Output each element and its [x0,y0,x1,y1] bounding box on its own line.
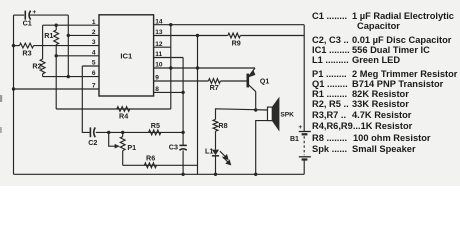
node left rail junction with pin 7 line [12,87,15,90]
svg-text:R1: R1 [44,31,53,40]
svg-text:7: 7 [92,83,96,90]
svg-text:3: 3 [92,39,96,46]
wire pin 4 line from IC to R1 bottom [56,55,99,57]
wire P1 top lead [122,132,124,136]
node P1 wiper branch junction on C2 line [107,131,110,134]
wire R2 bottom lead to pin 6 line corner [42,74,44,77]
resistor R8 zigzag vertical [213,119,218,131]
node V183 junction on pin 8 line [181,91,184,94]
svg-text:Q1: Q1 [260,78,269,85]
battery B1 first cell short plate [302,133,308,135]
svg-text:5: 5 [92,60,96,67]
LED L1 triangle pointing down [212,150,219,156]
speaker SPK cone trapezoid [272,98,279,130]
transistor Q1 collector lead slanting down [248,84,256,92]
wire R1 vertical upper lead from pin 1 line [55,25,57,30]
wire R6 line from P1 bottom to V197 [123,164,198,166]
speaker SPK body rectangle [268,107,273,121]
svg-text:SPK: SPK [280,112,294,119]
wire bottom rail from bottom-left corner to bottom-right corner [14,173,305,175]
wire pin 5 line from IC to corner at x=82.3 [82,65,99,67]
wire pin 5 vertical down to C2 line corner [82,66,89,132]
battery B1 second cell short plate [302,158,308,160]
svg-text:P1: P1 [127,143,136,152]
svg-text:R5: R5 [151,121,160,130]
wire speaker bottom lead left and down to bottom rail [256,121,268,175]
node V170 junction on pin 10 line [169,66,172,69]
wire R1 vertical lower lead down through pin 4 junction to R4 line corner [55,45,57,109]
svg-text:4: 4 [92,49,96,56]
node LED junction on bottom rail [214,173,217,176]
capacitor C3 top straight plate [179,144,186,146]
capacitor C3 bottom curved plate [179,149,186,150]
wire top rail right segment from C1 to vertical at x=68 [30,14,69,16]
svg-text:C3: C3 [169,142,178,151]
node V170 junction on pin 14 line [169,23,172,26]
wire pin 13 line right segment to right rail [240,35,304,37]
svg-text:R4: R4 [119,112,128,121]
svg-text:+: + [32,9,36,16]
wire pin 2 line from IC to V68 junction [68,34,99,36]
wire R8 bottom lead down to LED anode [215,131,217,149]
node junction V68 terminating on pin 6 line [67,75,70,78]
svg-text:B1: B1 [290,136,299,143]
LED L1 cathode bar [212,155,219,157]
wire battery top lead segment [303,130,305,132]
wire C3 bottom lead down to bottom rail [182,150,184,174]
capacitor C1 left straight plate [24,11,26,20]
svg-text:R6: R6 [146,153,155,162]
resistor R3 zigzag on pin 3 line [19,43,33,48]
wire pin 9 line right segment to Q1 base [220,80,246,82]
svg-text:1: 1 [92,19,96,26]
svg-text:C2: C2 [88,138,97,147]
transistor Q1 emitter lead slanting up to pin 10 line [248,68,255,78]
wire pin 3 line left segment to left rail [14,45,20,47]
transistor Q1 base bar [247,74,250,88]
node C3 junction on bottom rail [181,173,184,176]
wire pin 6 line from IC to R2 corner [43,76,99,78]
node left rail junction with pin 3 line [12,44,15,47]
wire top rail from top-left corner through C1 to V68 corner, left segment [14,14,25,16]
wire pin 14 line from IC to top-right corner [154,24,305,26]
potentiometer P1 zigzag vertical [120,137,125,151]
capacitor C1 right curved plate [29,11,31,20]
resistor R9 zigzag on pin 13 line [228,33,241,38]
wire Q1 collector vertical down to speaker line junction [255,92,257,110]
resistor R7 zigzag on pin 9 line [208,79,220,84]
svg-text:C1: C1 [23,19,32,28]
node speaker return junction on bottom rail [254,173,257,176]
wire V183 vertical from pin 11 down to C3 top plate [182,58,184,146]
wire V197 vertical from pin 13 line down to bottom rail [197,36,199,175]
node junction V68 on pin 2 line [67,34,70,37]
P1 wiper arrow shaft and riser to C2 line [109,132,117,146]
wire vertical from top rail down at x=68 to pin 6 line [67,15,69,77]
node Q1 collector junction on speaker top line [254,108,257,111]
resistor R2 zigzag vertical [40,59,45,74]
wire pin 7 line from IC to left rail [14,88,100,90]
battery B1 dashed middle line [303,136,305,155]
node C3 top junction at end of R5 line [181,131,184,134]
battery B1 first cell long plate [299,131,311,133]
wire P1 bottom lead down to R6 line corner [122,151,124,166]
wire right rail from pin 14 corner down to battery top [303,25,305,132]
wire LED cathode lead down to bottom rail [215,156,217,175]
resistor R4 zigzag on R4 line [117,107,130,112]
wire C2 line from C2 to C3 junction [96,131,183,133]
svg-text:L1: L1 [205,146,213,155]
node P1 top junction on C2 line [121,131,124,134]
wire pin 10 line from IC to Q1 emitter [154,67,255,69]
transistor Q1 emitter PNP arrowhead pointing toward base [248,71,255,78]
node R1 bottom junction on pin 4 line [55,54,58,57]
svg-text:R3: R3 [22,48,31,57]
op-amp IC1 556 dual timer body rectangle [99,15,154,96]
wire left rail from top-left corner down to bottom-left corner [13,15,15,174]
wire pin 8 line from IC to V183 junction [154,91,184,93]
svg-text:+: + [298,124,302,131]
P1 wiper arrowhead [115,144,120,149]
wire vertical from pin 1 corner down to R2 top [42,25,44,59]
wire R4 line from R1 vertical corner to V170 corner [56,108,171,110]
svg-text:IC1: IC1 [120,51,133,60]
svg-text:R8: R8 [218,121,227,130]
svg-text:6: 6 [92,70,96,77]
svg-text:R9: R9 [232,39,241,48]
wire V170 vertical from pin 14 dot down to R4 line corner [170,25,172,109]
node V197 junction terminating on pin 10 line [196,66,199,69]
wire pin 3 line with R3 from IC to left rail, right segment [34,45,99,47]
wire R8 top corner line from chain top to speaker rectangle [216,109,268,120]
svg-text:R7: R7 [210,83,219,92]
LED L1 emission arrow upper [220,151,228,159]
node R1 top junction on pin 1 line [55,24,58,27]
resistor R5 zigzag on C2 line [149,130,161,135]
wire battery bottom lead down to bottom-right corner [303,160,305,175]
wire pin 13 line with R9 from IC to right rail, left segment [154,35,228,37]
battery B1 second cell long plate [299,156,311,158]
wire pin 12 line from IC to V170 [154,46,171,48]
LED L1 emission arrow lower [223,157,231,165]
wire pin 9 line with R7 from IC to Q1 base, left segment [154,80,209,82]
node V197 junction on pin 13 line [196,34,199,37]
capacitor C2 left straight plate [89,127,91,137]
resistor R6 zigzag on R6 line [144,163,156,168]
resistor R1 zigzag vertical [54,30,59,45]
capacitor C2 right curved plate [94,127,96,137]
svg-text:2: 2 [92,29,96,36]
wire pin 11 line from IC to V183 corner [154,57,184,59]
svg-text:R2: R2 [32,61,41,70]
wire pin 1 line from IC to corner at x=42.6 [43,24,99,26]
